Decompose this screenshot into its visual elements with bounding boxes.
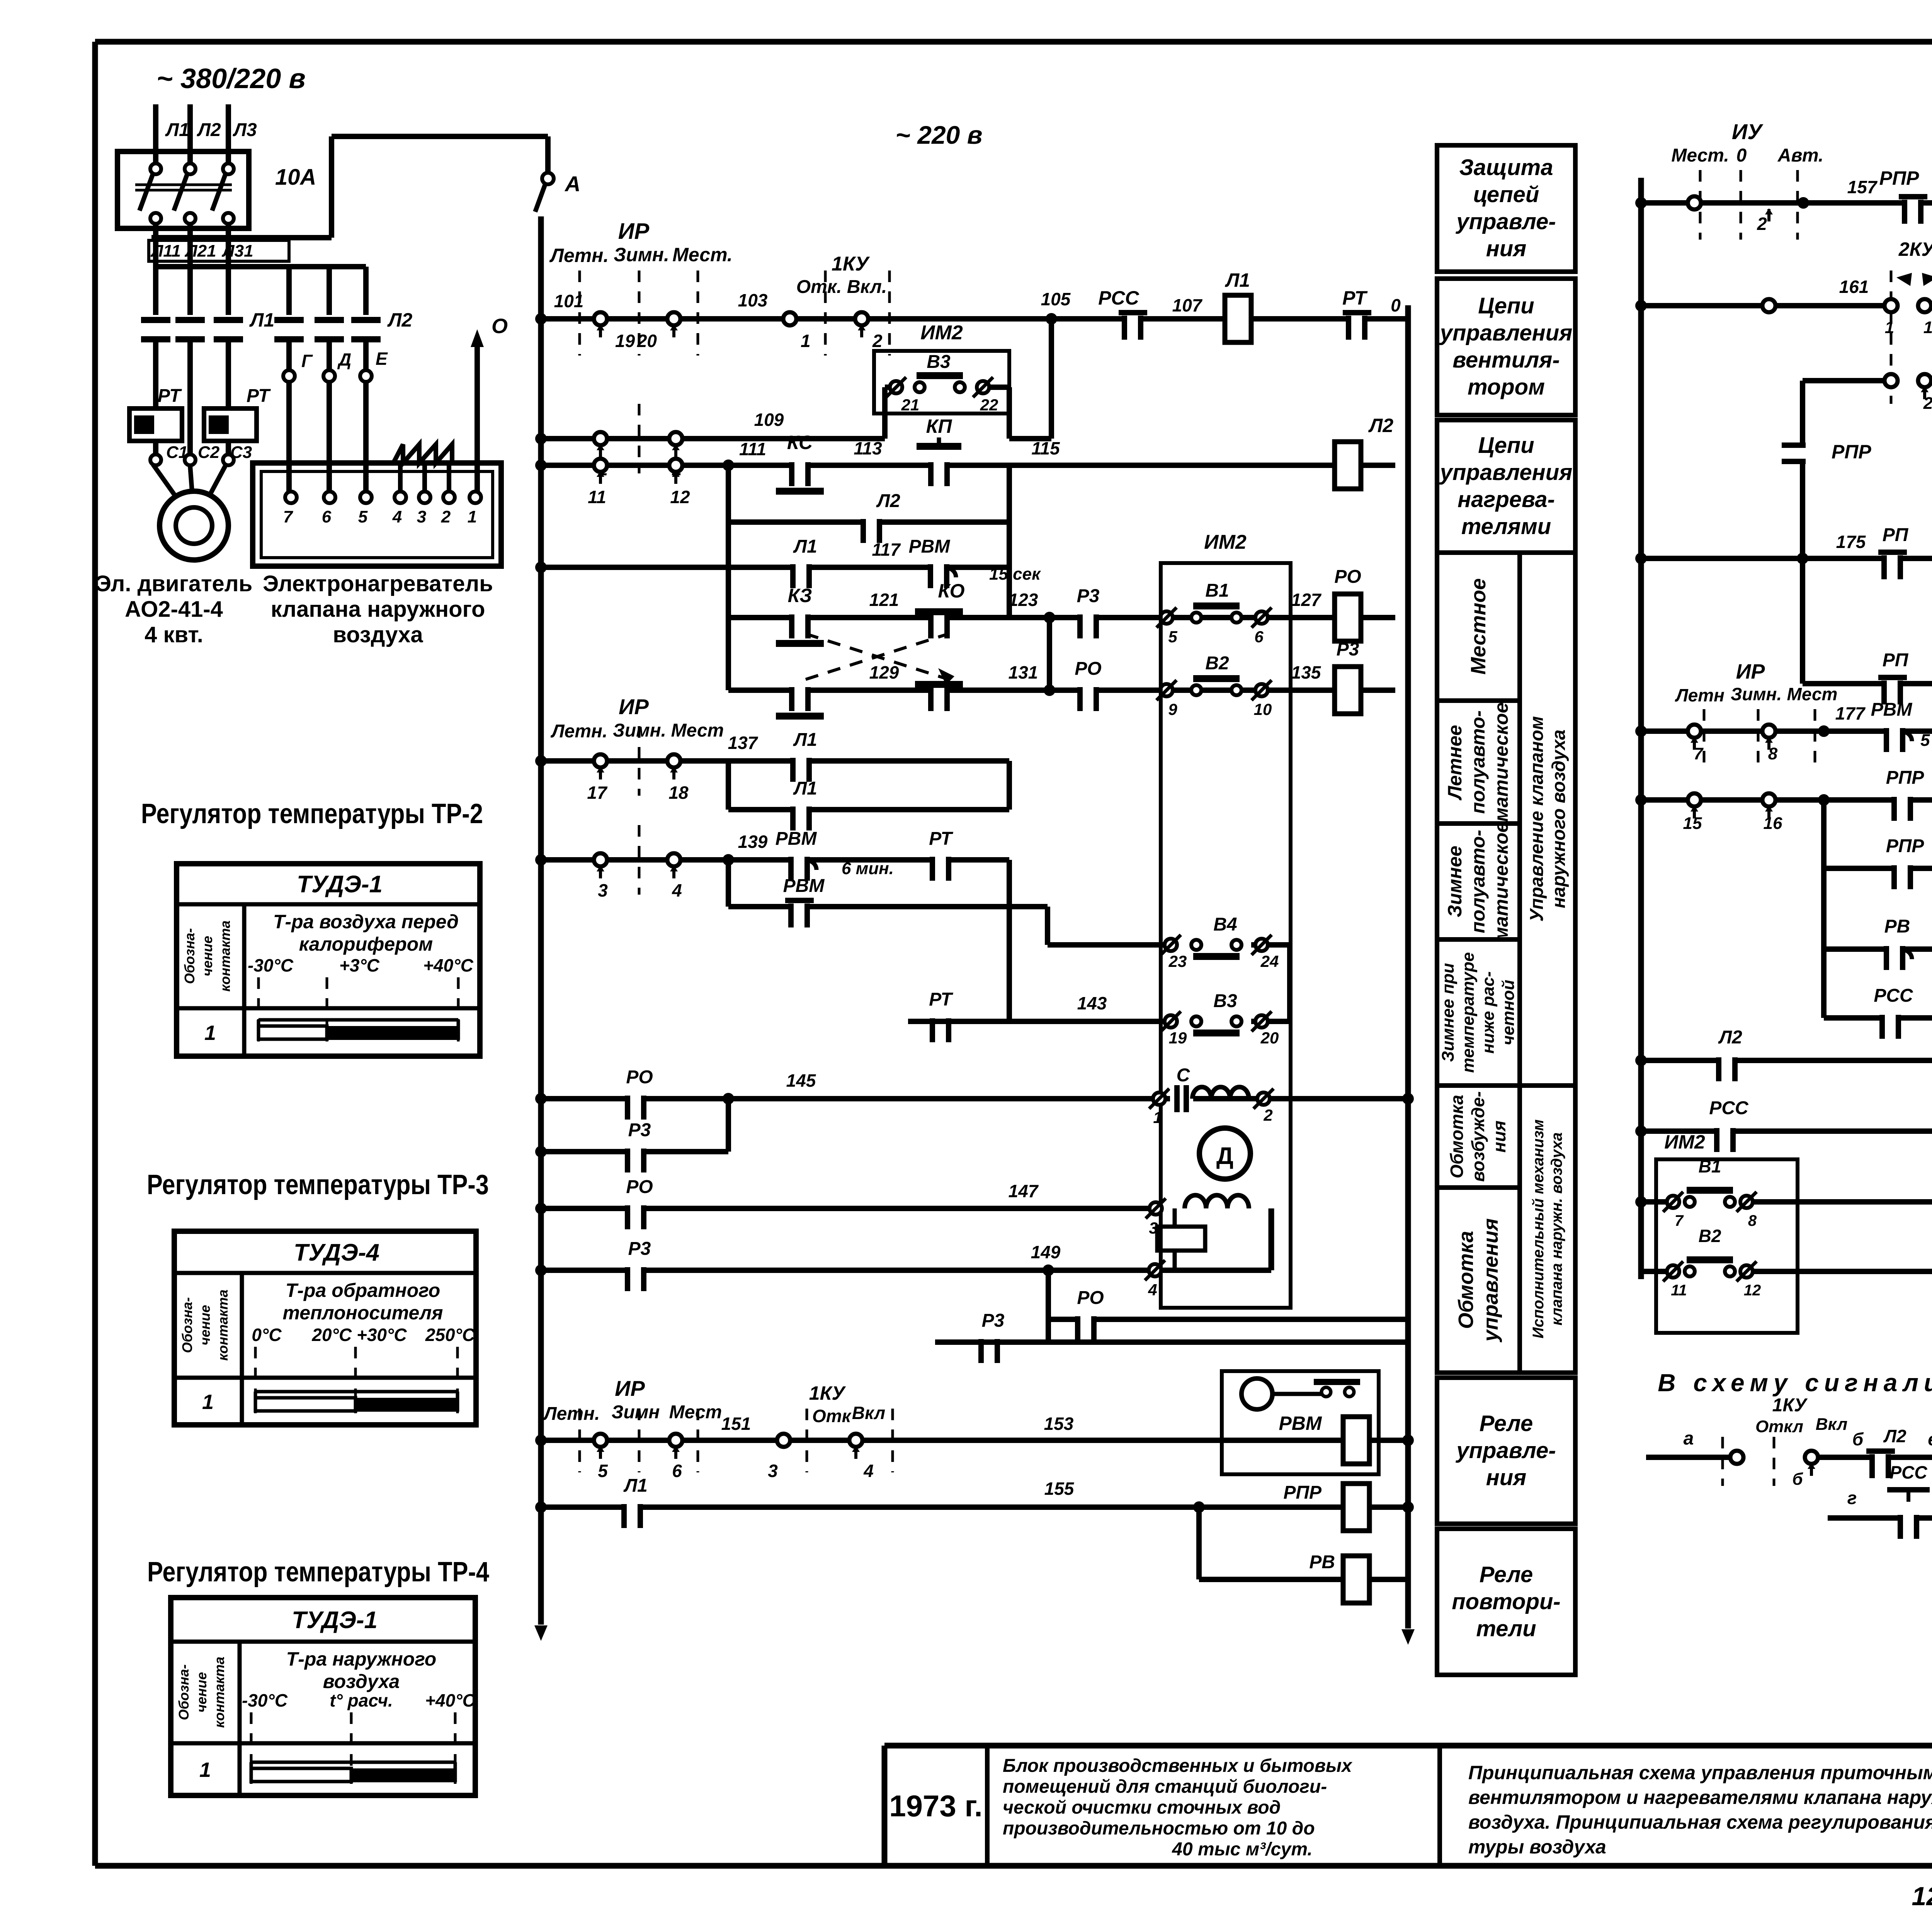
svg-text:Р3: Р3 — [1337, 639, 1359, 660]
svg-text:Местное: Местное — [1467, 578, 1490, 674]
svg-text:В3: В3 — [1213, 991, 1237, 1011]
svg-text:153: 153 — [1044, 1414, 1074, 1434]
svg-text:повтори-: повтори- — [1452, 1589, 1561, 1614]
svg-text:20°C +30°C: 20°C +30°C — [311, 1325, 407, 1345]
svg-text:40 тыс м³/сут.: 40 тыс м³/сут. — [1172, 1839, 1312, 1860]
svg-text:Т-ра воздуха перед: Т-ра воздуха перед — [273, 911, 459, 933]
svg-text:139: 139 — [738, 832, 768, 852]
svg-text:4: 4 — [672, 880, 682, 900]
svg-text:ТУДЭ-1: ТУДЭ-1 — [292, 1607, 378, 1634]
svg-text:ИР: ИР — [618, 219, 650, 244]
svg-text:10А: 10А — [275, 165, 316, 190]
svg-text:В1: В1 — [1699, 1156, 1721, 1176]
svg-text:воздуха. Принципиальная схем: воздуха. Принципиальная схема регулирова… — [1468, 1811, 1932, 1833]
svg-text:7: 7 — [283, 507, 294, 526]
svg-text:б: б — [1792, 1470, 1803, 1489]
svg-text:0°C: 0°C — [252, 1325, 282, 1345]
svg-text:15: 15 — [1683, 814, 1702, 833]
svg-text:22: 22 — [980, 396, 998, 414]
svg-text:1: 1 — [199, 1758, 211, 1782]
svg-text:Летн: Летн — [1675, 685, 1725, 705]
svg-text:чение: чение — [194, 1672, 209, 1713]
svg-text:Вкл: Вкл — [852, 1403, 885, 1423]
svg-text:1: 1 — [1885, 318, 1894, 337]
svg-text:Реле: Реле — [1480, 1411, 1533, 1436]
svg-text:18: 18 — [668, 783, 689, 803]
svg-text:матическое: матическое — [1490, 822, 1512, 941]
svg-text:КС: КС — [787, 432, 813, 453]
svg-text:19: 19 — [1169, 1029, 1187, 1047]
svg-text:0: 0 — [1736, 145, 1747, 166]
svg-text:полуавто-: полуавто- — [1467, 710, 1489, 814]
svg-text:клапана наружного: клапана наружного — [271, 597, 485, 622]
svg-text:Регулятор температуры ТР-4: Регулятор температуры ТР-4 — [147, 1557, 489, 1588]
svg-text:б: б — [1852, 1429, 1864, 1449]
svg-text:Авт.: Авт. — [1777, 145, 1823, 166]
svg-text:20: 20 — [637, 331, 657, 351]
svg-text:РПР: РПР — [1879, 167, 1919, 189]
svg-text:-30°C: -30°C — [248, 955, 294, 975]
svg-text:чение: чение — [197, 1305, 213, 1346]
svg-text:1: 1 — [801, 331, 811, 351]
svg-text:24: 24 — [1260, 952, 1279, 970]
svg-text:135: 135 — [1291, 662, 1321, 682]
svg-text:11: 11 — [1671, 1282, 1687, 1299]
svg-text:РО: РО — [1334, 567, 1361, 587]
svg-text:131: 131 — [1009, 662, 1038, 682]
svg-text:+3°C: +3°C — [339, 955, 380, 975]
svg-text:8: 8 — [1748, 1212, 1757, 1229]
svg-text:113: 113 — [854, 438, 882, 458]
svg-text:РПР: РПР — [1886, 836, 1925, 856]
svg-text:Мест: Мест — [1787, 684, 1838, 704]
svg-text:производительностью от 10: производительностью от 10 до — [1003, 1818, 1315, 1839]
svg-text:Обозна-: Обозна- — [176, 1664, 192, 1720]
svg-text:1: 1 — [202, 1390, 214, 1414]
svg-text:РО: РО — [626, 1177, 653, 1197]
svg-text:цепей: цепей — [1473, 182, 1539, 207]
svg-text:наружного воздуха: наружного воздуха — [1549, 730, 1569, 908]
svg-text:клапана наружн. воздуха: клапана наружн. воздуха — [1548, 1132, 1565, 1326]
svg-text:Л2: Л2 — [1368, 415, 1393, 436]
svg-text:нагрева-: нагрева- — [1458, 487, 1555, 512]
svg-text:Зимн: Зимн — [612, 1402, 660, 1423]
svg-text:Р3: Р3 — [628, 1120, 651, 1140]
svg-text:Обозна-: Обозна- — [179, 1297, 195, 1353]
svg-text:Л2: Л2 — [197, 120, 221, 140]
svg-text:9: 9 — [1168, 700, 1177, 718]
svg-text:161: 161 — [1839, 277, 1869, 297]
svg-text:129: 129 — [869, 662, 899, 682]
svg-text:РВМ: РВМ — [1871, 699, 1913, 720]
svg-text:ИР: ИР — [619, 694, 649, 719]
svg-text:туры воздуха: туры воздуха — [1468, 1836, 1606, 1858]
svg-text:Летн.: Летн. — [551, 721, 608, 742]
svg-text:А: А — [564, 172, 580, 196]
svg-text:О: О — [492, 315, 508, 338]
svg-text:телями: телями — [1461, 514, 1551, 539]
svg-text:101: 101 — [554, 291, 584, 311]
svg-text:КО: КО — [938, 580, 965, 602]
svg-text:АО2-41-4: АО2-41-4 — [125, 597, 223, 622]
svg-text:123: 123 — [1009, 590, 1038, 610]
svg-text:Цепи: Цепи — [1478, 293, 1534, 318]
svg-text:8: 8 — [1768, 744, 1778, 763]
svg-text:управле-: управле- — [1455, 209, 1556, 234]
svg-text:Л1: Л1 — [165, 120, 189, 140]
svg-text:С: С — [1177, 1065, 1190, 1086]
svg-text:+40°C: +40°C — [425, 1690, 475, 1710]
svg-text:ния: ния — [1486, 236, 1527, 261]
svg-text:6: 6 — [322, 507, 332, 526]
svg-text:Т-ра наружного: Т-ра наружного — [286, 1648, 437, 1670]
svg-text:16: 16 — [1764, 814, 1782, 833]
svg-text:возбужде-: возбужде- — [1468, 1091, 1488, 1182]
svg-text:6: 6 — [1254, 628, 1264, 646]
svg-text:РПР: РПР — [1886, 767, 1925, 788]
svg-text:Л1: Л1 — [1225, 269, 1250, 291]
svg-text:РВМ: РВМ — [909, 536, 951, 557]
svg-text:ТУДЭ-4: ТУДЭ-4 — [294, 1239, 379, 1266]
svg-text:РО: РО — [626, 1067, 653, 1087]
svg-text:РСС: РСС — [1874, 985, 1913, 1006]
svg-text:107: 107 — [1172, 295, 1203, 315]
svg-text:Л31: Л31 — [221, 242, 253, 260]
svg-text:Отк: Отк — [812, 1406, 852, 1426]
svg-text:4 квт.: 4 квт. — [145, 622, 203, 647]
svg-text:3: 3 — [417, 507, 426, 526]
svg-text:Л1: Л1 — [793, 730, 817, 750]
svg-text:РВМ: РВМ — [783, 876, 825, 896]
svg-text:12: 12 — [670, 487, 690, 507]
svg-text:6 мин.: 6 мин. — [842, 859, 894, 878]
svg-text:В2: В2 — [1699, 1226, 1721, 1246]
svg-text:4: 4 — [863, 1461, 874, 1481]
svg-text:ния: ния — [1486, 1465, 1527, 1490]
svg-text:Мест.: Мест. — [1671, 145, 1729, 166]
svg-text:Летнее: Летнее — [1444, 725, 1466, 800]
svg-text:2: 2 — [872, 331, 883, 351]
svg-text:Цепи: Цепи — [1478, 433, 1534, 458]
svg-text:Г: Г — [301, 351, 313, 371]
svg-text:РО: РО — [1075, 659, 1101, 679]
svg-text:5: 5 — [1168, 628, 1177, 646]
svg-text:15 сек: 15 сек — [989, 565, 1041, 584]
svg-text:6: 6 — [672, 1461, 682, 1481]
svg-text:РТ: РТ — [158, 386, 182, 406]
svg-text:115: 115 — [1031, 438, 1060, 458]
svg-text:РП: РП — [1883, 650, 1909, 670]
svg-text:РВМ: РВМ — [776, 829, 817, 849]
svg-text:~ 220 в: ~ 220 в — [895, 121, 982, 149]
svg-text:Электронагреватель: Электронагреватель — [263, 571, 493, 596]
svg-text:117: 117 — [872, 539, 901, 560]
svg-text:Блок производственных и быт: Блок производственных и бытовых — [1003, 1756, 1353, 1776]
svg-text:ИМ2: ИМ2 — [920, 322, 963, 344]
svg-text:калорифером: калорифером — [299, 933, 433, 955]
svg-text:175: 175 — [1836, 532, 1866, 552]
svg-text:КЗ: КЗ — [788, 585, 812, 606]
svg-text:контакта: контакта — [215, 1290, 231, 1361]
svg-text:Мест.: Мест. — [672, 244, 733, 265]
svg-text:1КУ: 1КУ — [832, 253, 870, 275]
svg-text:157: 157 — [1847, 177, 1878, 197]
svg-text:чение: чение — [199, 936, 215, 977]
svg-text:РО: РО — [1077, 1288, 1104, 1308]
svg-text:4: 4 — [1148, 1281, 1157, 1299]
svg-text:РТ: РТ — [929, 989, 953, 1010]
svg-text:5: 5 — [598, 1461, 608, 1481]
svg-text:105: 105 — [1041, 289, 1071, 309]
svg-text:контакта: контакта — [211, 1657, 227, 1728]
svg-text:В3: В3 — [927, 352, 951, 372]
svg-text:ниже рас-: ниже рас- — [1479, 971, 1498, 1053]
svg-text:4: 4 — [392, 507, 402, 526]
svg-text:Л3: Л3 — [233, 120, 257, 140]
svg-text:помещений для станций биоло: помещений для станций биологи- — [1003, 1777, 1327, 1797]
svg-text:147: 147 — [1009, 1181, 1039, 1201]
svg-text:РП: РП — [1883, 525, 1909, 545]
svg-text:матическое: матическое — [1490, 703, 1512, 822]
svg-text:109: 109 — [754, 410, 784, 430]
svg-text:0: 0 — [1391, 295, 1401, 315]
svg-text:контакта: контакта — [217, 921, 233, 992]
svg-text:Д: Д — [337, 349, 351, 369]
svg-text:а: а — [1684, 1428, 1694, 1449]
svg-text:111: 111 — [739, 439, 766, 459]
svg-text:е: е — [1928, 1429, 1932, 1449]
svg-text:149: 149 — [1031, 1242, 1061, 1262]
svg-text:Л1: Л1 — [793, 536, 817, 557]
svg-text:РВМ: РВМ — [1279, 1412, 1322, 1434]
svg-text:Летн.: Летн. — [543, 1404, 600, 1424]
svg-text:С2: С2 — [198, 443, 220, 462]
svg-text:127: 127 — [1291, 590, 1322, 610]
svg-text:РТ: РТ — [929, 829, 953, 849]
svg-text:В2: В2 — [1205, 653, 1229, 674]
svg-text:РВ: РВ — [1309, 1552, 1335, 1572]
svg-text:23: 23 — [1168, 952, 1187, 970]
svg-text:Л2: Л2 — [387, 309, 412, 331]
svg-text:Л11: Л11 — [150, 242, 181, 260]
svg-text:20: 20 — [1260, 1029, 1279, 1047]
svg-text:Л1: Л1 — [623, 1475, 648, 1496]
svg-text:Д: Д — [1216, 1143, 1233, 1169]
svg-text:РВ: РВ — [1884, 916, 1910, 937]
svg-text:Л2: Л2 — [1883, 1426, 1906, 1446]
svg-text:КП: КП — [926, 415, 952, 437]
svg-text:t° расч.: t° расч. — [330, 1690, 393, 1710]
svg-text:ИМ2: ИМ2 — [1664, 1131, 1705, 1153]
svg-text:12: 12 — [1744, 1282, 1761, 1299]
svg-text:Р3: Р3 — [628, 1239, 651, 1259]
svg-text:управле-: управле- — [1455, 1438, 1556, 1463]
svg-text:тели: тели — [1476, 1616, 1536, 1641]
svg-text:ИМ2: ИМ2 — [1204, 531, 1247, 553]
svg-text:Защита: Защита — [1459, 155, 1553, 180]
svg-text:1КУ: 1КУ — [1772, 1395, 1808, 1416]
svg-text:250°C: 250°C — [425, 1325, 475, 1345]
svg-text:РСС: РСС — [1709, 1098, 1749, 1118]
svg-text:7: 7 — [1694, 744, 1704, 763]
svg-text:137: 137 — [728, 733, 759, 753]
svg-text:вентиля-: вентиля- — [1452, 347, 1560, 373]
svg-text:Л2: Л2 — [1718, 1027, 1742, 1048]
svg-text:145: 145 — [786, 1070, 816, 1091]
svg-text:2КУ: 2КУ — [1898, 238, 1932, 260]
svg-text:Обмотка: Обмотка — [1454, 1231, 1478, 1329]
svg-text:Обмотка: Обмотка — [1447, 1095, 1467, 1178]
svg-text:Регулятор температуры ТР-2: Регулятор температуры ТР-2 — [141, 798, 483, 829]
svg-text:ния: ния — [1489, 1121, 1509, 1153]
svg-text:РТ: РТ — [1342, 287, 1368, 309]
svg-text:В схему сигнализации: В схему сигнализации — [1658, 1369, 1932, 1397]
svg-text:ческой очистки сточных во: ческой очистки сточных вод — [1003, 1797, 1281, 1818]
svg-text:Зимн.: Зимн. — [613, 720, 666, 741]
svg-text:10: 10 — [1254, 700, 1272, 718]
svg-text:Исполнительный механизм: Исполнительный механизм — [1530, 1120, 1547, 1339]
svg-text:121: 121 — [869, 590, 899, 610]
svg-text:РСС: РСС — [1098, 287, 1139, 309]
svg-text:143: 143 — [1077, 993, 1107, 1013]
svg-text:Отк. Вкл.: Отк. Вкл. — [796, 277, 887, 297]
svg-text:Обозна-: Обозна- — [182, 928, 197, 984]
svg-text:Эл. двигатель: Эл. двигатель — [95, 571, 253, 596]
svg-text:Зимнее: Зимнее — [1444, 846, 1466, 917]
svg-text:Мест: Мест — [671, 720, 724, 741]
svg-text:Л21: Л21 — [184, 242, 216, 260]
svg-text:12920 - 05: 12920 - 05 — [1912, 1882, 1932, 1911]
svg-text:7: 7 — [1675, 1212, 1684, 1229]
svg-text:РПР: РПР — [1283, 1482, 1322, 1503]
svg-text:Л2: Л2 — [876, 491, 900, 511]
svg-text:РПР: РПР — [1832, 441, 1871, 463]
svg-text:ИУ: ИУ — [1732, 119, 1764, 144]
svg-text:Регулятор температуры ТР-3: Регулятор температуры ТР-3 — [147, 1169, 489, 1200]
svg-text:1973 г.: 1973 г. — [889, 1789, 983, 1823]
svg-text:1: 1 — [204, 1021, 216, 1045]
svg-text:21: 21 — [901, 396, 920, 414]
svg-text:Мест: Мест — [669, 1402, 722, 1423]
svg-text:~ 380/220 в: ~ 380/220 в — [156, 63, 306, 94]
svg-text:Р3: Р3 — [982, 1310, 1005, 1331]
svg-text:В4: В4 — [1213, 914, 1237, 935]
svg-text:РТ: РТ — [247, 386, 271, 406]
svg-text:Принципиальная схема упр: Принципиальная схема управления приточны… — [1468, 1762, 1932, 1783]
svg-text:г: г — [1847, 1488, 1857, 1508]
svg-text:Т-ра обратного: Т-ра обратного — [286, 1280, 440, 1301]
svg-text:1: 1 — [468, 507, 477, 526]
svg-text:Зимн.: Зимн. — [1731, 684, 1782, 704]
svg-text:вентилятором и нагревате: вентилятором и нагревателями клапана нар… — [1468, 1787, 1932, 1808]
svg-text:В1: В1 — [1205, 580, 1229, 601]
svg-text:Вкл: Вкл — [1816, 1415, 1848, 1434]
svg-text:3: 3 — [598, 880, 608, 900]
svg-text:11: 11 — [588, 487, 606, 507]
svg-text:Р3: Р3 — [1077, 586, 1100, 606]
svg-text:Летн.: Летн. — [549, 245, 609, 266]
svg-text:Л1: Л1 — [249, 309, 274, 331]
svg-text:2: 2 — [441, 507, 451, 526]
svg-text:управления: управления — [1479, 1218, 1502, 1343]
svg-text:температуре: температуре — [1459, 952, 1478, 1073]
svg-text:Зимнее при: Зимнее при — [1439, 963, 1458, 1062]
svg-text:ИР: ИР — [1736, 660, 1765, 683]
svg-text:Откл: Откл — [1755, 1417, 1803, 1436]
svg-text:ТУДЭ-1: ТУДЭ-1 — [297, 871, 383, 898]
svg-text:19: 19 — [615, 331, 635, 351]
svg-text:177: 177 — [1835, 703, 1866, 723]
svg-text:2: 2 — [1757, 214, 1767, 234]
svg-text:151: 151 — [721, 1414, 751, 1434]
svg-text:1КУ: 1КУ — [809, 1382, 847, 1404]
svg-text:четной: четной — [1499, 980, 1518, 1045]
svg-text:воздуха: воздуха — [333, 622, 423, 647]
svg-text:103: 103 — [738, 290, 768, 310]
svg-text:Управление клапаном: Управление клапаном — [1527, 716, 1547, 922]
svg-text:управления: управления — [1439, 460, 1573, 485]
svg-text:155: 155 — [1044, 1479, 1075, 1499]
svg-text:5 мин.: 5 мин. — [1920, 731, 1932, 750]
svg-text:управления: управления — [1439, 320, 1573, 345]
svg-text:3: 3 — [768, 1461, 778, 1481]
svg-text:+40°C: +40°C — [423, 955, 473, 975]
svg-text:5: 5 — [358, 507, 368, 526]
svg-text:тором: тором — [1468, 374, 1545, 400]
svg-text:Е: Е — [376, 349, 388, 369]
svg-text:Зимн.: Зимн. — [614, 244, 669, 265]
svg-text:-30°C: -30°C — [242, 1690, 288, 1710]
svg-text:полуавто-: полуавто- — [1467, 830, 1489, 933]
svg-text:Реле: Реле — [1480, 1562, 1533, 1587]
svg-text:2: 2 — [1263, 1106, 1272, 1124]
svg-text:1: 1 — [1153, 1108, 1162, 1127]
svg-text:17: 17 — [587, 783, 608, 803]
svg-text:воздуха: воздуха — [323, 1671, 400, 1692]
svg-text:ИР: ИР — [615, 1376, 645, 1400]
svg-text:Л1: Л1 — [793, 778, 817, 799]
svg-text:1: 1 — [1923, 318, 1932, 337]
svg-text:теплоносителя: теплоносителя — [283, 1302, 443, 1324]
svg-text:РСС: РСС — [1889, 1462, 1927, 1482]
